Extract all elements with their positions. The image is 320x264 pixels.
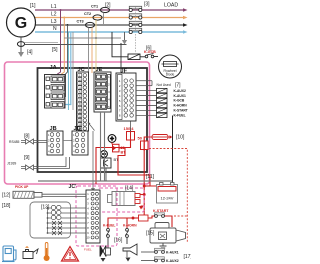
svg-text:RS485: RS485 [9, 140, 19, 144]
svg-text:[16]: [16] [114, 238, 123, 244]
svg-text:JC': JC' [69, 184, 77, 190]
svg-text:JA: JA [50, 65, 57, 71]
svg-text:[3]: [3] [144, 2, 150, 8]
svg-text:[9]: [9] [24, 155, 30, 161]
svg-text:50: 50 [138, 136, 143, 141]
svg-text:[11]: [11] [146, 174, 155, 180]
svg-text:L2: L2 [51, 12, 57, 18]
svg-text:K-AUX1: K-AUX1 [174, 94, 186, 98]
svg-text:15/54: 15/54 [124, 126, 135, 131]
svg-text:FUEL: FUEL [84, 248, 92, 252]
svg-text:K-GCB: K-GCB [174, 99, 185, 103]
svg-text:Not Used: Not Used [157, 83, 171, 87]
svg-text:K-HORN: K-HORN [123, 224, 137, 228]
svg-text:K-AUX2: K-AUX2 [166, 259, 179, 263]
svg-text:L3: L3 [51, 19, 57, 25]
svg-text:[4]: [4] [27, 50, 33, 56]
svg-text:[15]: [15] [146, 231, 155, 237]
svg-text:[13]: [13] [41, 205, 50, 211]
svg-text:CT1: CT1 [91, 5, 98, 9]
svg-text:[12]: [12] [2, 193, 11, 199]
svg-text:G: G [15, 15, 27, 32]
svg-text:Diode: Diode [166, 72, 175, 76]
svg-text:LOAD: LOAD [164, 3, 178, 9]
svg-text:L1: L1 [51, 4, 57, 10]
svg-text:[1]: [1] [30, 3, 36, 9]
svg-text:[10]: [10] [176, 135, 185, 141]
svg-text:K-AUX1: K-AUX1 [166, 251, 179, 255]
svg-text:12-24V: 12-24V [161, 196, 174, 201]
svg-text:[14]: [14] [125, 186, 134, 192]
svg-text:K-FUEL: K-FUEL [174, 114, 186, 118]
svg-text:N: N [53, 26, 57, 32]
svg-text:K-START: K-START [153, 209, 169, 213]
svg-text:[17]: [17] [184, 254, 192, 260]
svg-text:K-HORN: K-HORN [174, 104, 188, 108]
svg-text:[5]: [5] [52, 47, 58, 53]
svg-text:CT3: CT3 [77, 20, 84, 24]
svg-text:K-AUX2: K-AUX2 [174, 89, 186, 93]
svg-text:[7]: [7] [175, 83, 181, 89]
svg-text:K-FUEL: K-FUEL [103, 224, 115, 228]
svg-text:[6]: [6] [146, 46, 152, 52]
svg-text:K-START: K-START [174, 109, 188, 113]
svg-text:[2]: [2] [105, 3, 111, 9]
svg-text:[18]: [18] [2, 203, 11, 209]
svg-text:J1939: J1939 [7, 162, 16, 166]
svg-text:CT2: CT2 [84, 12, 91, 16]
svg-text:[8]: [8] [24, 134, 30, 140]
svg-text:PICK UP: PICK UP [15, 185, 29, 189]
